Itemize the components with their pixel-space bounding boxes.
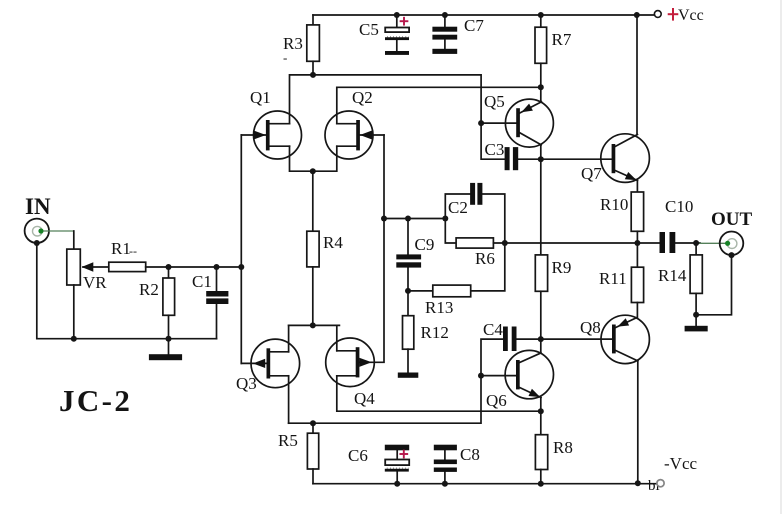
- wire Q7 base: [541, 158, 612, 160]
- svg-text:R10: R10: [600, 195, 628, 214]
- capacitor C4: [481, 339, 541, 376]
- junction output node: [634, 240, 640, 246]
- potentiometer VR: [67, 249, 81, 339]
- svg-text:R6: R6: [475, 249, 495, 268]
- transistor Q1 (JFET): [241, 111, 301, 159]
- svg-text:R4: R4: [323, 233, 343, 252]
- wire C10 to R14/OUT: [675, 242, 700, 244]
- wire lower node to Q6 base branch: [289, 376, 481, 424]
- wire bus R9 to C4 node: [540, 291, 542, 339]
- svg-text:R9: R9: [552, 258, 572, 277]
- label OUT: [711, 209, 753, 230]
- resistor R10: [631, 192, 643, 243]
- ground below R14: [695, 315, 697, 326]
- junction sources: [310, 168, 316, 174]
- svg-text:R11: R11: [599, 269, 627, 288]
- wire bus C3 node to R9: [540, 159, 542, 255]
- ground below R2: [168, 339, 170, 355]
- junction R4 bottom: [310, 322, 316, 328]
- wire bus Q5 collector to C3 node: [540, 145, 542, 159]
- svg-text:C5: C5: [359, 20, 379, 39]
- resistor R13: [408, 285, 471, 297]
- resistor R6: [456, 238, 493, 248]
- junction C8 bottom: [442, 481, 448, 487]
- connector OUT: [720, 232, 744, 256]
- watermark: [648, 478, 660, 494]
- transistor Q7 (NPN): [601, 134, 650, 183]
- transistor Q6 (NPN): [481, 339, 554, 399]
- svg-text:-Vcc: -Vcc: [664, 454, 697, 473]
- resistor R5: [307, 423, 318, 484]
- junction input node: [238, 264, 244, 270]
- label +Vcc: [669, 9, 678, 20]
- capacitor C5 (electrolytic): [385, 15, 409, 51]
- label JC-2: [59, 383, 132, 418]
- svg-text:Q3: Q3: [236, 374, 257, 393]
- junction R6 right: [502, 240, 508, 246]
- edge artifact: [780, 0, 782, 514]
- wire Q1/Q2 sources join: [290, 146, 337, 171]
- svg-text:C10: C10: [665, 197, 693, 216]
- wire VR top: [73, 231, 75, 249]
- wire Q7 collector to +Vcc rail: [636, 15, 638, 135]
- wire feedback node to C2/R6 branch: [384, 218, 445, 220]
- transistor Q3 (JFET): [241, 325, 299, 387]
- wire Q7 emitter to R10: [636, 181, 638, 193]
- svg-text:R8: R8: [553, 438, 573, 457]
- svg-text:Q6: Q6: [486, 391, 507, 410]
- wire IN to VR (green): [44, 230, 74, 232]
- svg-text:C2: C2: [448, 198, 468, 217]
- wire to OUT connector (green): [700, 242, 726, 244]
- svg-text:R14: R14: [658, 266, 687, 285]
- svg-text:Q2: Q2: [352, 88, 373, 107]
- wire Q6 emitter to R8 node: [540, 398, 542, 412]
- wire Q8 base: [541, 338, 612, 340]
- svg-text:R5: R5: [278, 431, 298, 450]
- wire Q4 source down to Q6 emitter line: [337, 376, 541, 411]
- svg-text:C1: C1: [192, 272, 212, 291]
- svg-text:C7: C7: [464, 16, 484, 35]
- wire feedback vertical Q2 gate to Q4 gate: [359, 135, 384, 362]
- svg-text:C6: C6: [348, 446, 368, 465]
- node -Vcc bottom rail: [313, 483, 657, 485]
- resistor R1 with wiper arrow: [83, 262, 169, 271]
- wire OUT shield to ground: [696, 255, 731, 315]
- svg-text:R13: R13: [425, 298, 453, 317]
- resistor R12: [403, 291, 414, 373]
- connector IN: [25, 219, 49, 243]
- svg-text:VR: VR: [83, 273, 107, 292]
- svg-text:R7: R7: [552, 30, 572, 49]
- resistor R14: [690, 243, 702, 315]
- svg-text:R2: R2: [139, 280, 159, 299]
- terminal +Vcc: [654, 11, 661, 18]
- svg-text:C8: C8: [460, 445, 480, 464]
- svg-text:R12: R12: [421, 323, 449, 342]
- terminal -Vcc: [657, 480, 664, 487]
- resistor R7: [535, 15, 547, 87]
- transistor Q5 (PNP): [481, 99, 553, 147]
- resistor R8: [535, 411, 547, 484]
- svg-text:JC-2: JC-2: [59, 383, 132, 418]
- svg-text:Q5: Q5: [484, 92, 505, 111]
- svg-text:OUT: OUT: [711, 209, 753, 230]
- svg-text:IN: IN: [25, 194, 51, 219]
- svg-text:R1: R1: [111, 239, 131, 258]
- transistor Q4 (JFET): [326, 325, 375, 386]
- wire input vertical Q1 gate to Q3 gate: [240, 135, 242, 363]
- transistor Q8 (PNP): [601, 315, 649, 363]
- wire IN shield to ground line: [37, 243, 217, 339]
- capacitor C8: [444, 450, 446, 483]
- wire Q3/Q4 drains join: [289, 324, 340, 326]
- junction R13 left / R12 top: [405, 288, 411, 294]
- capacitor C1: [216, 267, 218, 339]
- wire Q2 drain to R7 bottom: [337, 87, 541, 123]
- junction R7 bottom: [538, 84, 544, 90]
- junction R8 bottom: [538, 481, 544, 487]
- svg-text:C3: C3: [485, 140, 505, 159]
- wire Q3 source down to lower node: [288, 376, 290, 423]
- junction Q5 base: [478, 120, 484, 126]
- junction C3 / Q7 base node: [538, 156, 544, 162]
- capacitor C6 (electrolytic): [385, 450, 409, 483]
- junction C4 / Q6 collector / Q8 base: [538, 336, 544, 342]
- wire output node line: [493, 242, 659, 244]
- junction on +Vcc rail: [634, 12, 640, 18]
- capacitor C10: [660, 197, 694, 253]
- resistor R3: [307, 15, 320, 75]
- svg-text:Q4: Q4: [354, 389, 375, 408]
- junction Q6 base: [478, 373, 484, 379]
- resistor R11: [631, 243, 643, 318]
- svg-text:Q1: Q1: [250, 88, 271, 107]
- resistor R4: [307, 171, 319, 325]
- junction R14 bottom: [693, 312, 699, 318]
- junction R5 top: [310, 420, 316, 426]
- wire C2 left leg: [445, 194, 470, 243]
- wire Q8 collector to -Vcc rail: [637, 361, 639, 483]
- junction Q8 collector rail: [635, 480, 641, 486]
- junction VR bottom: [71, 336, 77, 342]
- junction R3 bottom: [310, 72, 316, 78]
- capacitor C7: [444, 15, 446, 49]
- resistor R2: [163, 267, 175, 339]
- wire input node line: [169, 266, 242, 268]
- svg-text:Q7: Q7: [581, 164, 602, 183]
- junction feedback node: [381, 216, 387, 222]
- wire bus R7 to Q5 emitter: [540, 87, 542, 102]
- svg-text:Q8: Q8: [580, 318, 601, 337]
- svg-text:-: -: [283, 50, 287, 65]
- transistor Q2 (JFET): [325, 111, 384, 159]
- wire C2 right / R13 right leg: [471, 194, 505, 291]
- label -Vcc: [664, 454, 697, 473]
- label IN: [25, 194, 51, 219]
- svg-text:C9: C9: [415, 235, 435, 254]
- junction C2/R6 left: [442, 216, 448, 222]
- wire Q1 drain / R3 node to Q5 base and C3: [290, 75, 505, 159]
- node +Vcc top rail: [313, 14, 654, 16]
- svg-text:Vcc: Vcc: [678, 7, 704, 24]
- capacitor C2: [448, 183, 482, 217]
- ground below R12: [398, 373, 419, 378]
- junction C6 bottom: [394, 481, 400, 487]
- capacitor C3: [518, 158, 541, 160]
- svg-text:C4: C4: [483, 320, 503, 339]
- junction Q6 emitter / R8: [538, 408, 544, 414]
- resistor R9: [535, 255, 547, 291]
- capacitor C9: [407, 219, 409, 291]
- junction R14 top: [693, 240, 699, 246]
- svg-text:--: --: [129, 244, 137, 258]
